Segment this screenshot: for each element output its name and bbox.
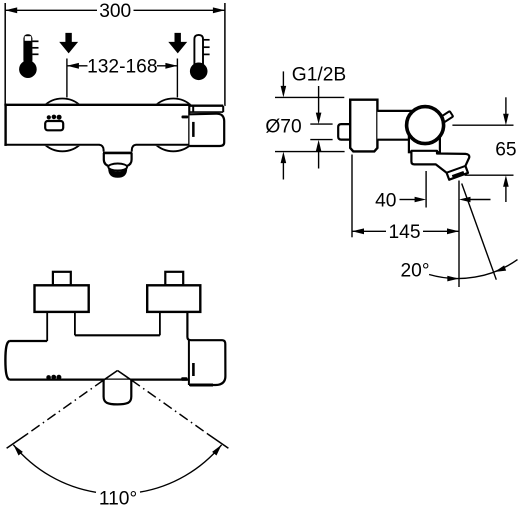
handle (front view) — [189, 105, 224, 146]
cold thermometer icon (outline stem) — [190, 35, 210, 80]
dimension 132-168: dimension line — [67, 65, 88, 67]
dimension 40: left extension line — [425, 171, 427, 208]
dimension 145: dimension line — [352, 230, 386, 232]
wall escutcheon (side view) — [350, 100, 377, 152]
dimension 300: right arrowhead — [213, 7, 225, 13]
20 degree arc — [429, 260, 517, 279]
faucet body (plan view) — [5, 335, 189, 379]
G1/2B lower arrow (up) — [318, 151, 320, 169]
faucet body (front view) — [4, 104, 190, 146]
dimension 300: dimension line — [5, 9, 97, 11]
svg-text:65: 65 — [495, 139, 516, 160]
svg-text:20°: 20° — [400, 261, 429, 282]
thermostat handle knob (side view circle) — [407, 107, 444, 144]
diameter 70 bottom arrow (up) — [282, 163, 284, 180]
dimension 145: left extension line — [351, 155, 353, 238]
110 degree arc — [13, 445, 96, 493]
110 degree arc right arrowhead — [212, 443, 224, 455]
svg-text:Ø70: Ø70 — [265, 116, 301, 137]
nipple bottom extension line — [310, 139, 332, 141]
left union body — [35, 285, 89, 312]
left union stem lines — [46, 312, 48, 341]
hot inlet down arrow — [59, 33, 78, 54]
dimension 300: right extension line — [224, 3, 226, 106]
dimension 132-168: right extension line — [176, 59, 178, 98]
hot thermometer icon (filled stem) — [19, 34, 38, 78]
dimension 300: left extension line / body left edge extension — [4, 3, 6, 105]
handle (plan view) — [187, 312, 225, 385]
handle index bar (front view) — [192, 122, 195, 137]
G1/2B leader arrow (down) — [318, 86, 320, 114]
aerator step line — [447, 166, 466, 173]
svg-text:110°: 110° — [99, 489, 137, 510]
temperature scale dots (plan view) — [46, 375, 61, 380]
right swivel dash-dot centerline — [132, 380, 208, 434]
aerator slot (black) — [452, 171, 464, 178]
dimension 40: left-pointing arrow — [470, 199, 491, 201]
left union top nut — [53, 272, 71, 286]
svg-text:145: 145 — [388, 222, 420, 243]
dimension 132-168: left arrowhead — [67, 63, 79, 69]
diameter 70 top arrow (down) — [282, 71, 284, 86]
20 degree tilted line — [462, 184, 497, 280]
svg-text:132-168: 132-168 — [87, 57, 157, 78]
dimension 65: top extension line (faucet axis) — [452, 124, 513, 126]
svg-text:300: 300 — [99, 1, 131, 22]
temperature stop tab — [438, 111, 453, 124]
swivel pivot triangle legs — [103, 371, 117, 381]
right union stem lines — [159, 312, 161, 335]
wall nipple G1/2B (side view) — [338, 124, 351, 140]
left swivel dash-dot centerline — [27, 380, 103, 434]
dimension 300: left arrowhead — [5, 7, 17, 13]
20 degree arc arrowhead at tilted line — [493, 265, 506, 274]
svg-text:G1/2B: G1/2B — [292, 65, 346, 86]
right union body — [147, 285, 200, 312]
temperature scale dots on body — [47, 115, 62, 120]
body arm (side view) — [377, 111, 413, 140]
right escutcheon circle — [147, 99, 200, 152]
spout (plan view) — [104, 380, 132, 405]
right union top nut — [165, 272, 183, 286]
marker tick on body near handle — [182, 116, 189, 119]
nipple top extension line — [310, 123, 332, 125]
spout (side view) — [411, 151, 469, 180]
dimension 65: bottom extension line (outlet) — [465, 174, 514, 176]
escutcheon bottom extension line — [275, 151, 345, 153]
dimension 132-168: right arrowhead — [165, 63, 177, 69]
left escutcheon circle — [36, 99, 89, 152]
eco button on body — [45, 121, 63, 130]
spout (front view) — [99, 145, 136, 178]
cold inlet down arrow — [168, 33, 187, 54]
escutcheon top extension line — [275, 96, 344, 98]
dimension 145: right arrowhead — [447, 228, 459, 234]
handle index bar (plan view) — [192, 363, 195, 376]
dimension 65: bottom arrow (up) — [505, 186, 507, 202]
dimension 145: left arrowhead — [352, 228, 364, 234]
svg-text:40: 40 — [375, 191, 396, 212]
20 degree arc arrowhead at vertical line — [447, 276, 459, 282]
marker tick near handle (plan view) — [181, 377, 187, 381]
outlet axis vertical line — [458, 181, 460, 288]
dimension 40: right-pointing arrow — [400, 199, 416, 201]
dimension 65: top arrow (down) — [505, 97, 507, 114]
dimension 132-168: left extension line — [66, 59, 68, 98]
valve block below handle (side view) — [409, 130, 440, 152]
110 degree arc left arrowhead — [11, 443, 23, 455]
